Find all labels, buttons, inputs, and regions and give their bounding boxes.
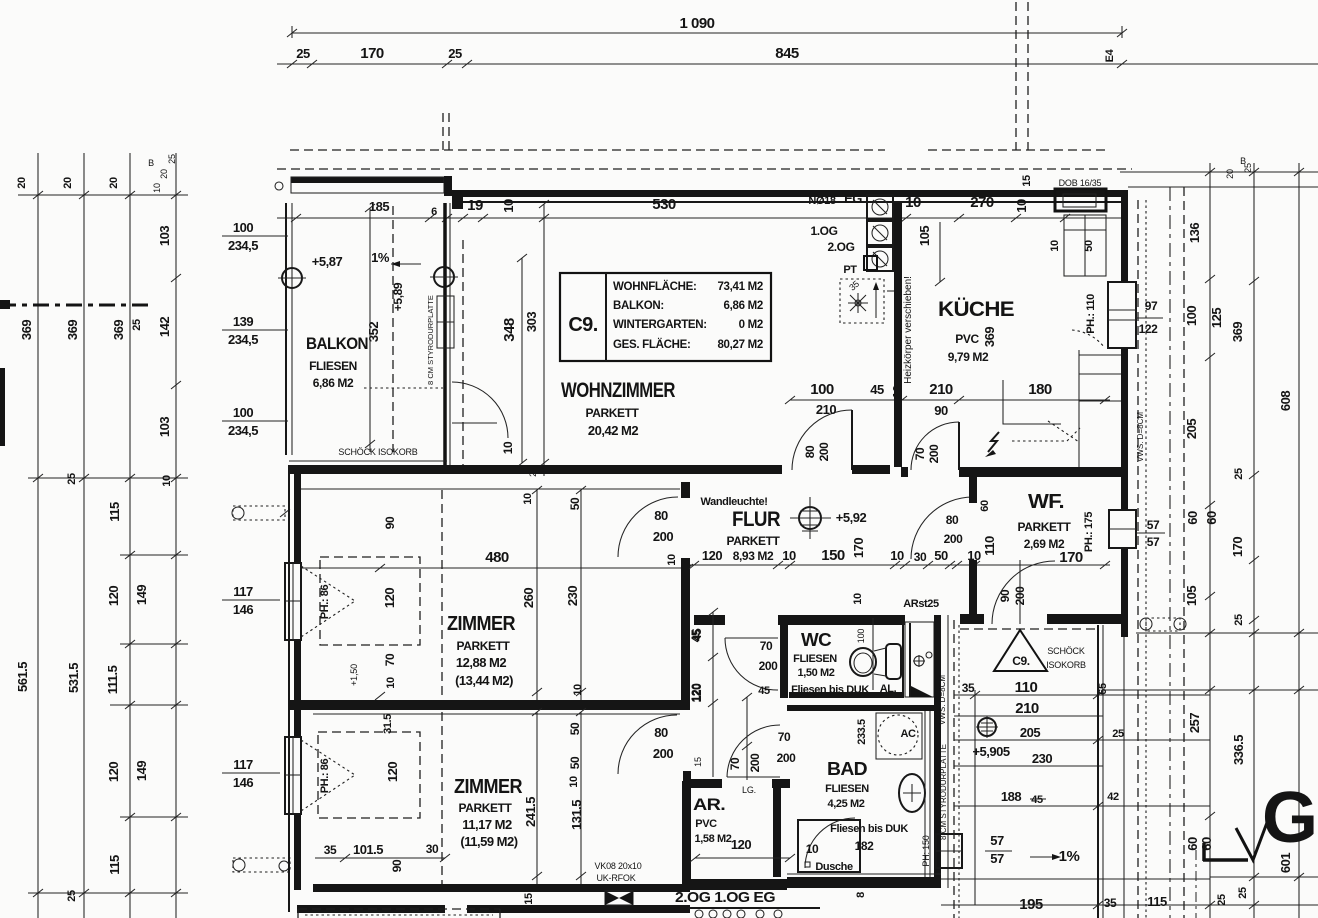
floor drain terrace [976,716,998,738]
svg-text:PH: 150: PH: 150 [921,835,931,866]
svg-text:25: 25 [1233,468,1245,480]
svg-text:PVC: PVC [955,332,979,346]
svg-text:Fliesen bis DUK: Fliesen bis DUK [830,823,908,835]
left chain top tie and ticks [16,154,188,389]
svg-text:PH.: 86: PH.: 86 [319,758,331,793]
svg-text:1%: 1% [1059,848,1080,865]
terrace boundary dashed [954,620,959,918]
svg-text:NØ18: NØ18 [808,195,835,207]
svg-text:200: 200 [944,532,964,546]
svg-text:31.5: 31.5 [382,714,394,734]
svg-text:170: 170 [851,538,866,558]
wall WC top segments [694,615,905,625]
svg-text:10: 10 [890,548,904,563]
svg-text:146: 146 [233,602,253,617]
ceiling light symbol flur [790,497,866,539]
svg-text:234,5: 234,5 [228,238,258,253]
wall WF bottom segments [960,614,1124,624]
svg-text:149: 149 [134,585,149,605]
svg-text:70: 70 [760,639,773,653]
terrace vertical dim guides [941,560,1210,905]
WF left wall segments [969,477,991,614]
svg-text:80: 80 [654,508,668,523]
svg-text:139: 139 [233,314,253,329]
svg-text:103: 103 [157,417,172,437]
svg-text:6: 6 [431,206,437,218]
svg-text:200: 200 [748,753,762,773]
svg-text:25: 25 [1216,894,1228,906]
svg-text:369: 369 [982,327,997,347]
svg-text:142: 142 [157,317,172,337]
svg-text:369: 369 [19,320,34,340]
svg-text:15: 15 [1021,175,1033,187]
door flur to zimmer1 [618,497,678,566]
svg-text:10: 10 [501,199,516,213]
zimmer right wall segments [681,482,691,884]
shower Dusche [798,818,874,873]
dim vertical lines Wohnzimmer left [501,200,549,477]
bathtub oval [899,774,925,812]
svg-text:PT: PT [843,264,857,276]
svg-text:FLIESEN: FLIESEN [793,653,837,665]
svg-text:WINTERGARTEN:: WINTERGARTEN: [613,319,707,331]
svg-text:70: 70 [778,730,791,744]
window Zimmer2 PH86 [285,737,355,814]
svg-text:105: 105 [1184,586,1199,606]
dimension line under top wall [277,175,1122,222]
kitchen counter lines [1003,350,1121,467]
svg-text:110: 110 [1015,679,1038,696]
anchor symbol right [1140,618,1186,631]
svg-text:100: 100 [233,220,253,235]
svg-text:35: 35 [962,681,975,695]
svg-text:E4: E4 [1104,48,1116,62]
svg-text:Dusche: Dusche [815,861,853,873]
svg-text:8 CM STYRODURPLATTE: 8 CM STYRODURPLATTE [426,295,435,385]
svg-text:35: 35 [324,843,337,857]
svg-text:AR.: AR. [693,795,725,814]
svg-text:70: 70 [383,653,397,666]
door terrace to WF [992,561,1055,624]
svg-text:19: 19 [467,197,483,214]
svg-text:180: 180 [1028,381,1052,398]
svg-text:120: 120 [106,762,121,782]
dim 480 zimmer1 [300,549,693,572]
svg-text:12,88 M2: 12,88 M2 [456,655,506,670]
dimension line 25/170/25/845 (top) [277,45,1318,68]
svg-text:+5,92: +5,92 [836,510,867,525]
svg-text:170: 170 [1059,549,1083,566]
svg-text:(13,44 M2): (13,44 M2) [455,673,513,688]
svg-text:FLIESEN: FLIESEN [309,359,357,373]
svg-text:35: 35 [1104,896,1117,910]
svg-text:149: 149 [134,761,149,781]
right chain ties and ticks [941,168,1318,918]
window Zimmer1 PH86 [285,563,355,640]
svg-text:EG: EG [844,191,862,206]
svg-text:57: 57 [990,851,1004,866]
room label ZIMMER 1 [447,613,516,688]
svg-text:WOHNFLÄCHE:: WOHNFLÄCHE: [613,280,697,293]
AR right wall [773,779,781,877]
svg-text:90: 90 [390,859,404,872]
wall wohnzimmer bottom segments [289,461,890,489]
label ARst25 flur [852,593,939,610]
svg-text:PARKETT: PARKETT [457,639,511,653]
svg-text:25: 25 [448,46,462,61]
svg-text:182: 182 [855,839,875,853]
wall WC/BAD double band [787,692,934,711]
kitchen wall left [894,203,914,467]
svg-text:115: 115 [1147,894,1167,909]
svg-text:101.5: 101.5 [353,842,383,857]
wall BAD bottom [787,874,941,888]
svg-text:117: 117 [233,757,253,772]
roof overhang dashed lines top [290,149,1108,151]
wall zimmer1/zimmer2 [289,700,690,714]
svg-text:20: 20 [62,177,74,189]
svg-text:0 M2: 0 M2 [739,319,763,331]
facade dashed line [277,168,1132,170]
balcony door arc into Wohnzimmer [452,382,508,438]
AC unit dashed circle [876,713,922,759]
svg-text:50: 50 [568,722,582,735]
svg-text:WOHNZIMMER: WOHNZIMMER [561,379,675,402]
svg-text:125: 125 [1209,308,1224,328]
balcony dim vertical lines [364,204,443,452]
svg-text:120: 120 [382,588,397,608]
terrace dimension lines [954,679,1210,810]
svg-text:60: 60 [1185,511,1200,525]
wall balcony bottom [289,465,447,474]
kitchen shaft box DOB [1055,178,1106,211]
dimension row kitchen doors y400 [785,381,1110,418]
bad inner wall lines [925,711,930,877]
room label WF [982,491,1095,605]
anchor symbol left lower [233,858,290,872]
room label KUECHE [917,222,1015,364]
svg-text:50: 50 [934,548,948,563]
svg-text:(11,59 M2): (11,59 M2) [460,834,517,849]
svg-text:Wandleuchte!: Wandleuchte! [701,496,768,508]
svg-text:20: 20 [16,177,28,189]
svg-text:+5,87: +5,87 [312,254,343,269]
svg-text:25: 25 [296,46,310,61]
svg-text:25: 25 [167,154,177,164]
corner mark bottom right [1203,843,1248,861]
svg-text:97: 97 [1145,299,1158,313]
svg-text:20: 20 [108,177,120,189]
svg-text:10: 10 [1049,240,1061,252]
left outer wall with windows [289,465,301,912]
svg-text:VWS. D=8CM: VWS. D=8CM [938,675,947,725]
svg-text:2.OG 1.OG EG: 2.OG 1.OG EG [675,889,775,906]
svg-text:57: 57 [1147,535,1160,549]
door Kueche to Flur [911,422,959,470]
dimension line total 1090 (top) [287,15,1127,38]
svg-text:25: 25 [66,890,78,902]
svg-text:VK08 20x10: VK08 20x10 [594,861,641,871]
svg-text:PARKETT: PARKETT [586,406,640,420]
electric symbol (lightning) [985,432,999,457]
svg-text:SCHÖCK ISOKORB: SCHÖCK ISOKORB [338,447,417,457]
svg-text:PARKETT: PARKETT [1018,520,1072,534]
door Wohnzimmer to Flur [792,410,852,470]
bath outer wall to terrace [934,615,948,888]
svg-text:131.5: 131.5 [569,800,584,830]
svg-text:110: 110 [982,536,997,556]
svg-text:120: 120 [731,837,751,852]
toilet [850,618,901,690]
svg-text:200: 200 [653,746,673,761]
right outer wall of building [1121,190,1146,918]
svg-text:BALKON:: BALKON: [613,300,664,312]
svg-text:10: 10 [152,183,162,193]
svg-text:120: 120 [385,762,400,782]
marker C9 triangle [994,630,1086,671]
slope arrow terrace [985,833,1079,913]
svg-text:20: 20 [159,169,169,179]
svg-text:ARst25: ARst25 [903,598,939,610]
left chain labels [15,226,173,902]
svg-text:348: 348 [501,318,518,342]
door flur to zimmer2 [618,715,677,774]
svg-text:200: 200 [759,659,779,673]
svg-text:561.5: 561.5 [15,662,30,692]
svg-text:15: 15 [523,893,535,905]
svg-text:ISOKORB: ISOKORB [1046,660,1086,670]
svg-text:170: 170 [1230,537,1245,557]
svg-text:ZIMMER: ZIMMER [454,776,523,798]
svg-text:UK-RFOK: UK-RFOK [596,873,635,883]
svg-text:25: 25 [66,473,78,485]
info box C9 [560,273,771,361]
svg-text:WC: WC [801,630,832,650]
svg-text:103: 103 [157,226,172,246]
wall kitchen/flur bottom segments [901,467,1121,477]
svg-text:210: 210 [1015,700,1039,717]
svg-text:B: B [148,158,154,168]
svg-text:122: 122 [1139,322,1159,336]
svg-text:200: 200 [817,442,831,462]
svg-text:10: 10 [501,441,515,454]
svg-text:80: 80 [946,513,959,527]
svg-text:10: 10 [572,684,584,696]
svg-text:PVC: PVC [695,818,717,830]
svg-text:2.OG: 2.OG [827,240,854,254]
svg-text:6,86 M2: 6,86 M2 [724,300,763,312]
svg-text:8: 8 [855,892,867,898]
svg-text:+1,50: +1,50 [349,664,359,686]
svg-text:FLIESEN: FLIESEN [825,783,869,795]
dashed wall continuation over terrace [960,628,1096,630]
svg-text:80,27 M2: 80,27 M2 [717,339,763,351]
svg-text:260: 260 [521,588,536,608]
svg-text:115: 115 [107,855,122,875]
room label WC [791,629,869,696]
svg-text:200: 200 [777,751,797,765]
room label AR [690,795,795,862]
svg-text:531.5: 531.5 [66,663,81,693]
svg-text:146: 146 [233,775,253,790]
svg-text:50: 50 [568,497,582,510]
svg-text:LG.: LG. [742,785,756,795]
bottom labels [523,861,867,906]
svg-text:BAD: BAD [827,759,868,779]
svg-text:530: 530 [652,196,676,213]
svg-text:AC: AC [900,728,916,740]
svg-text:SCHÖCK: SCHÖCK [1047,646,1085,656]
svg-text:100: 100 [233,405,253,420]
svg-text:117: 117 [233,584,253,599]
svg-text:480: 480 [485,549,509,566]
svg-text:9,79 M2: 9,79 M2 [948,350,989,364]
svg-text:15: 15 [693,757,703,767]
window row bottom edge [688,908,820,918]
svg-text:188: 188 [1001,789,1021,804]
svg-text:10: 10 [1014,199,1029,213]
svg-text:80: 80 [803,445,817,458]
window sill dims balcony left [222,220,288,438]
svg-text:VWS. D=8CM: VWS. D=8CM [1136,412,1145,462]
svg-text:70: 70 [913,447,927,460]
wall balcony/wohnzimmer with window [426,203,463,465]
svg-text:8 CM STYRODURPLATTE: 8 CM STYRODURPLATTE [939,744,948,840]
svg-text:25: 25 [1243,163,1253,173]
svg-text:10: 10 [161,475,173,487]
svg-text:10: 10 [522,493,534,505]
svg-text:210: 210 [929,381,953,398]
svg-text:1.OG: 1.OG [810,224,837,238]
svg-text:+5,905: +5,905 [972,744,1009,759]
svg-text:120: 120 [702,548,722,563]
window dims 117/146 left [222,584,280,790]
svg-text:230: 230 [1032,751,1052,766]
window PH110 kitchen right [1072,282,1163,348]
svg-text:100: 100 [856,629,866,644]
svg-text:80: 80 [654,725,668,740]
svg-text:336.5: 336.5 [1231,735,1246,765]
black bar left edge [0,368,5,446]
svg-text:50: 50 [568,756,582,769]
svg-text:11,17 M2: 11,17 M2 [462,817,512,832]
svg-text:200: 200 [927,444,941,464]
svg-text:369: 369 [111,320,126,340]
svg-text:25: 25 [1112,728,1124,740]
svg-text:30: 30 [914,550,927,564]
svg-text:120: 120 [106,586,121,606]
svg-text:10: 10 [806,842,819,856]
survey mark G [1236,778,1318,860]
room label BALKON [306,334,368,390]
dim lines zimmer2 [315,708,586,884]
svg-text:25: 25 [1233,614,1245,626]
svg-text:60: 60 [979,500,991,512]
svg-text:60: 60 [1185,837,1200,851]
terrace glass railing [1098,625,1103,918]
bottom wall zimmer2 [297,879,787,913]
svg-text:105: 105 [917,226,932,246]
wardrobe dashed zimmer1 [320,490,442,700]
svg-text:PH.: 86: PH.: 86 [319,584,331,619]
bowtie symbol bottom [605,891,633,905]
svg-text:608: 608 [1278,391,1293,411]
svg-text:30: 30 [426,842,439,856]
room label WOHNZIMMER [561,379,675,438]
svg-text:10: 10 [666,554,678,566]
svg-text:PARKETT: PARKETT [459,801,513,815]
balcony outline below dashed [298,909,500,918]
svg-text:845: 845 [775,45,799,62]
property boundary dash-dot line left [0,300,148,309]
door flur to WC [689,608,778,777]
kitchen cabinet [1049,215,1106,276]
drain circle top left [275,182,283,190]
svg-text:230: 230 [565,586,580,606]
svg-text:45: 45 [1031,794,1043,806]
balcony downpipe left [278,268,306,288]
dimension chain left: vertical lines [38,153,176,918]
svg-text:369: 369 [1230,322,1245,342]
svg-text:PARKETT: PARKETT [727,534,781,548]
svg-text:1,58 M2: 1,58 M2 [695,833,732,845]
svg-text:150: 150 [821,547,845,564]
wall joint block [444,176,452,196]
washbasin WC [880,622,934,697]
svg-text:25: 25 [1237,887,1249,899]
svg-text:KÜCHE: KÜCHE [938,298,1015,321]
svg-text:ZIMMER: ZIMMER [447,613,516,635]
svg-text:205: 205 [1020,725,1040,740]
WC walls left/right [780,620,903,698]
svg-text:G: G [1262,778,1318,858]
door flur to WF [911,497,973,559]
corridor dim lines [693,693,796,780]
svg-text:4,25 M2: 4,25 M2 [828,798,865,810]
svg-text:57: 57 [1147,518,1160,532]
door corridor to BAD [727,725,780,777]
right chain labels [1104,156,1293,910]
svg-text:136: 136 [1187,223,1202,243]
svg-text:170: 170 [360,45,384,62]
svg-text:100: 100 [1184,306,1199,326]
svg-text:57: 57 [990,833,1004,848]
svg-text:1 090: 1 090 [679,15,714,32]
svg-text:FLUR: FLUR [732,508,780,531]
room label FLUR [701,496,781,548]
svg-text:210: 210 [816,402,836,417]
svg-text:1%: 1% [371,250,390,265]
svg-text:10: 10 [568,776,580,788]
wall AR top segments [686,779,790,795]
wardrobe dashed zimmer2 [318,712,442,884]
balcony level +5,87 and slope [312,250,421,342]
svg-text:234,5: 234,5 [228,423,258,438]
riser shaft symbols EG / 1.OG / 2.OG / PT [810,195,893,276]
svg-text:Heizkörper verschieben!: Heizkörper verschieben! [903,276,914,384]
svg-text:369: 369 [65,320,80,340]
svg-text:20: 20 [1225,169,1235,179]
svg-text:WF.: WF. [1028,491,1064,513]
svg-text:90: 90 [998,589,1012,602]
svg-text:10: 10 [905,194,921,211]
right chain vertical lines [1170,163,1299,918]
svg-text:BALKON: BALKON [306,334,368,353]
svg-text:352: 352 [366,322,381,342]
svg-text:10: 10 [852,593,864,605]
svg-text:GES. FLÄCHE:: GES. FLÄCHE: [613,338,691,351]
svg-text:20,42 M2: 20,42 M2 [588,423,638,438]
